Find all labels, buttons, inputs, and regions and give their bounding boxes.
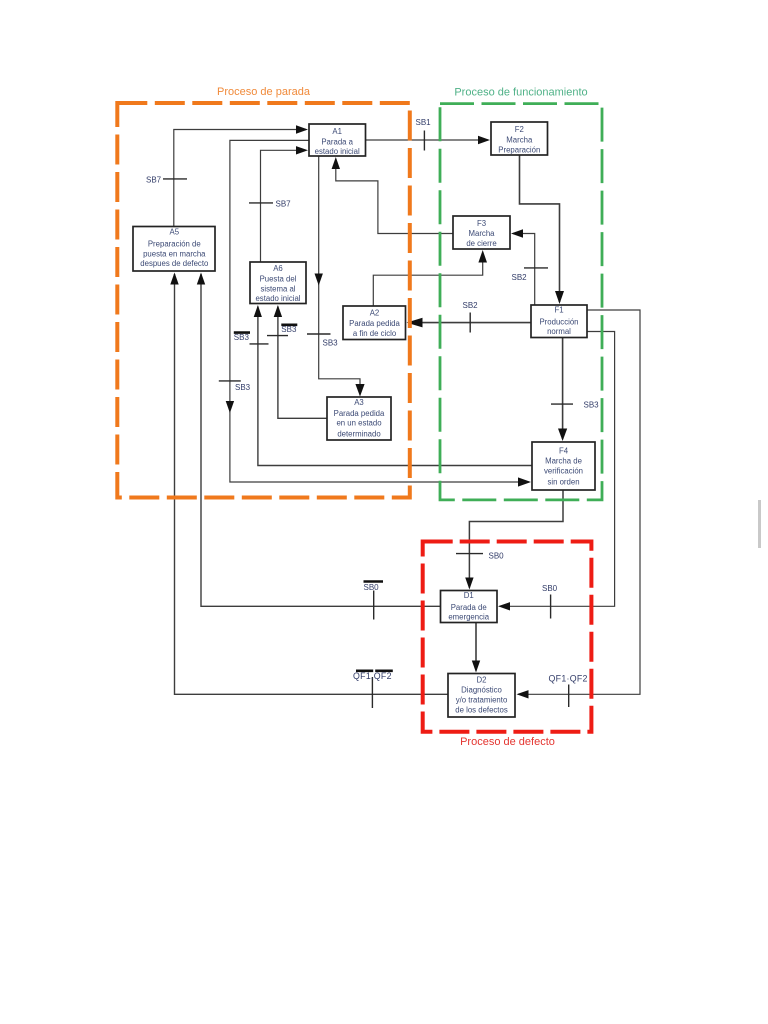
- svg-text:SB1: SB1: [416, 118, 432, 127]
- svg-text:SB0: SB0: [489, 552, 505, 561]
- svg-text:QF1.QF2: QF1.QF2: [353, 671, 392, 681]
- svg-text:SB2: SB2: [512, 273, 528, 282]
- svg-text:QF1·QF2: QF1·QF2: [549, 674, 588, 684]
- svg-text:SB3: SB3: [234, 333, 250, 342]
- svg-text:SB7: SB7: [146, 176, 162, 185]
- svg-text:Proceso de funcionamiento: Proceso de funcionamiento: [454, 87, 587, 99]
- svg-text:SB7: SB7: [276, 200, 292, 209]
- svg-text:SB3: SB3: [235, 383, 251, 392]
- svg-text:Proceso de defecto: Proceso de defecto: [460, 736, 555, 748]
- svg-text:SB0: SB0: [542, 584, 558, 593]
- svg-text:SB3: SB3: [584, 401, 600, 410]
- svg-text:SB3: SB3: [281, 325, 297, 334]
- svg-text:SB0: SB0: [364, 583, 380, 592]
- svg-text:SB3: SB3: [323, 339, 339, 348]
- svg-text:SB2: SB2: [463, 301, 479, 310]
- svg-text:Proceso de parada: Proceso de parada: [217, 86, 311, 98]
